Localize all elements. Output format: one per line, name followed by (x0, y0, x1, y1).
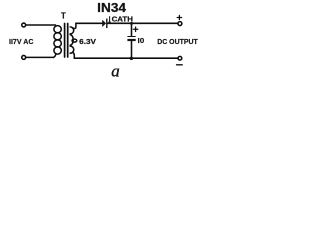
svg-text:II7V AC: II7V AC (9, 37, 34, 46)
svg-text:T: T (61, 12, 66, 21)
svg-text:6.3V: 6.3V (79, 37, 96, 46)
svg-text:IN34: IN34 (97, 0, 127, 15)
svg-text:DC OUTPUT: DC OUTPUT (157, 37, 198, 46)
svg-text:I0: I0 (138, 36, 145, 45)
svg-text:a: a (111, 62, 120, 81)
svg-text:CATH: CATH (112, 15, 133, 24)
